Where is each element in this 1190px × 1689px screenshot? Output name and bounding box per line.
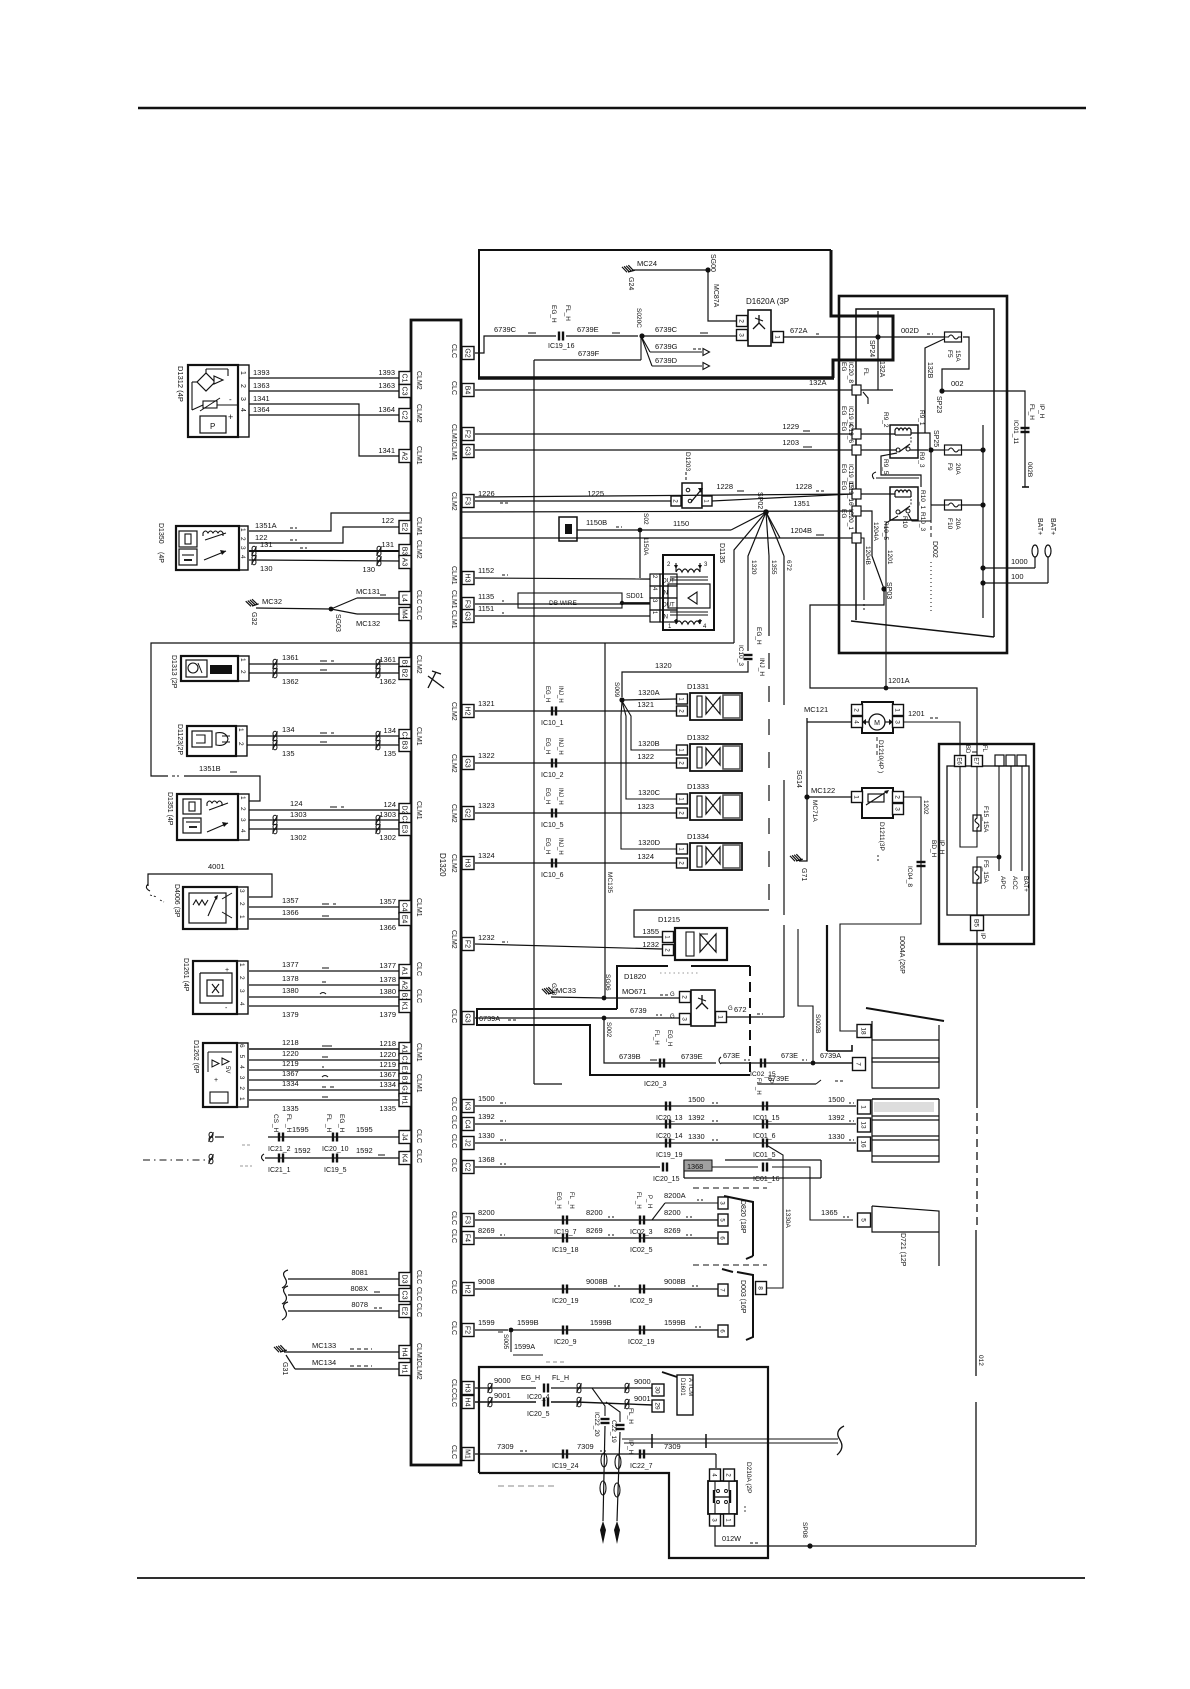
wire 135 [247, 744, 399, 746]
svg-text:8078: 8078 [351, 1300, 368, 1309]
svg-text:1366: 1366 [379, 923, 396, 932]
svg-text:MC131: MC131 [356, 587, 380, 596]
svg-text:6: 6 [238, 1044, 245, 1048]
svg-text:CLC: CLC [450, 344, 457, 358]
svg-text:1151: 1151 [478, 604, 494, 613]
svg-text:CLC: CLC [415, 1270, 422, 1284]
svg-text:124: 124 [290, 799, 303, 808]
wire 1592 [262, 1154, 265, 1161]
D1350 internal switch [204, 551, 226, 560]
svg-text:FL_H: FL_H [552, 1375, 569, 1382]
component D210A [708, 1481, 737, 1514]
junction after F9 [980, 447, 985, 452]
SP24 to 132A [877, 311, 879, 390]
svg-text:EG: EG [840, 422, 847, 431]
wire 1323 [475, 812, 676, 814]
svg-text:EG_H: EG_H [521, 1375, 540, 1382]
svg-text:1377: 1377 [379, 961, 396, 970]
svg-text:132A: 132A [878, 361, 885, 378]
wire SG00 to D1620A pin2 [708, 270, 737, 321]
svg-text:CLM2: CLM2 [415, 655, 422, 674]
svg-text:BD_H: BD_H [930, 840, 937, 858]
wire 673E [719, 1057, 721, 1064]
wire 1357 [249, 906, 399, 908]
svg-text:F3: F3 [463, 600, 470, 608]
svg-text:D210A (2P: D210A (2P [745, 1462, 752, 1493]
svg-text:1324: 1324 [637, 852, 654, 861]
svg-text:1201: 1201 [886, 550, 893, 565]
svg-text:1367: 1367 [379, 1070, 396, 1079]
svg-text:H1: H1 [400, 1365, 407, 1374]
relay R9 [890, 425, 918, 458]
svg-text:MC121: MC121 [804, 705, 828, 714]
svg-text:D4006 (3P: D4006 (3P [173, 884, 180, 918]
svg-text:D1332: D1332 [687, 733, 709, 742]
svg-text:CLM2: CLM2 [415, 540, 422, 559]
svg-text:1321: 1321 [478, 699, 495, 708]
wire 1201 from D1210 [904, 722, 960, 766]
svg-text:2: 2 [237, 742, 244, 746]
wire 8200 [475, 1219, 718, 1221]
svg-text:1: 1 [859, 1105, 866, 1109]
svg-text:D3: D3 [400, 1275, 407, 1284]
wire 8078 [282, 1302, 288, 1320]
wire 100 [980, 580, 985, 585]
wire 131 [249, 550, 399, 552]
D1312 internal P box [200, 416, 226, 433]
relay R9 coil output to SP25 [911, 433, 930, 448]
svg-text:D1313 (2P: D1313 (2P [170, 655, 177, 689]
svg-text:1355: 1355 [770, 560, 777, 575]
svg-text:L4: L4 [400, 594, 407, 602]
wire 672 vertical [766, 512, 784, 556]
svg-text:4001: 4001 [208, 862, 225, 871]
svg-text:1361: 1361 [282, 653, 299, 662]
svg-text:1228: 1228 [795, 482, 812, 491]
svg-text:2: 2 [238, 902, 245, 906]
svg-text:MC71A: MC71A [811, 800, 818, 822]
svg-text:7: 7 [854, 1062, 861, 1066]
wire 6739E [566, 335, 638, 337]
wire 808X [282, 1286, 288, 1304]
svg-text:(4P: (4P [157, 552, 164, 563]
svg-text:C2: C2 [400, 411, 407, 420]
svg-text:002B: 002B [1026, 462, 1033, 477]
svg-text:D721 (12P: D721 (12P [899, 1233, 906, 1267]
svg-text:1322: 1322 [637, 752, 654, 761]
svg-text:G3: G3 [463, 611, 470, 620]
svg-text:CLM1: CLM1 [450, 442, 457, 461]
svg-text:+: + [228, 412, 233, 422]
resistor 1150B [559, 517, 577, 541]
ground G71 [790, 853, 803, 862]
ground MC33 [542, 986, 555, 995]
wire 1203 [475, 449, 856, 451]
svg-text:1361: 1361 [379, 655, 396, 664]
svg-text:6739A: 6739A [820, 1051, 841, 1060]
wire 6739A from G3 [475, 1017, 679, 1019]
fuse F9 20A [931, 449, 945, 451]
D210A internal link [714, 1481, 716, 1491]
wire 1228 into relay R10 [475, 494, 856, 497]
svg-text:1592: 1592 [294, 1146, 311, 1155]
svg-text:CLM1: CLM1 [415, 801, 422, 820]
svg-text:9008B: 9008B [664, 1277, 686, 1286]
wire 1599B [511, 1329, 718, 1331]
svg-text:1320B: 1320B [638, 739, 660, 748]
svg-text:1341: 1341 [378, 446, 395, 455]
svg-text:1334: 1334 [379, 1080, 396, 1089]
svg-text:M1: M1 [463, 1449, 470, 1459]
svg-text:D1333: D1333 [687, 782, 709, 791]
svg-text:6739C: 6739C [494, 325, 517, 334]
svg-text:CLM1: CLM1 [450, 610, 457, 629]
svg-text:SP23: SP23 [935, 396, 942, 413]
svg-text:3: 3 [238, 889, 245, 893]
svg-text:9000: 9000 [494, 1376, 511, 1385]
svg-text:3: 3 [239, 818, 246, 822]
svg-text:1335: 1335 [379, 1104, 396, 1113]
op-amp driver MO671 [691, 990, 715, 1026]
svg-text:1378: 1378 [282, 974, 299, 983]
wire 1599 [475, 1329, 508, 1331]
svg-text:R10_3: R10_3 [919, 512, 926, 532]
svg-text:R9_5: R9_5 [882, 459, 889, 475]
driver box D1820 [617, 966, 668, 1009]
wire 6739E lower [758, 1083, 816, 1085]
passenger fuse box outer [939, 744, 1034, 944]
wire 7309 [475, 1453, 716, 1455]
svg-text:MO671: MO671 [622, 987, 647, 996]
top enclosure bottom edge thick [478, 376, 834, 380]
svg-text:1150A: 1150A [642, 537, 649, 556]
wire 1321 [475, 710, 676, 712]
svg-text:SP25: SP25 [932, 430, 939, 447]
frame around 1368 run [683, 1160, 685, 1178]
wire 132B [925, 339, 944, 433]
wire 1377 [249, 970, 399, 972]
svg-text:MC134: MC134 [312, 1358, 336, 1367]
svg-text:1228: 1228 [716, 482, 733, 491]
svg-text:CLC: CLC [415, 590, 422, 604]
svg-text:1351: 1351 [793, 499, 810, 508]
wire 1362 [249, 672, 399, 674]
svg-text:INJ_H: INJ_H [557, 738, 563, 755]
svg-text:CLM2: CLM2 [450, 754, 457, 773]
D1351 internal switch [207, 823, 228, 832]
wire 672A [783, 336, 839, 338]
svg-text:CLC: CLC [415, 1129, 422, 1143]
svg-text:DB WIRE: DB WIRE [549, 600, 577, 607]
svg-text:1362: 1362 [282, 677, 299, 686]
wire MO671 [604, 997, 679, 999]
connector IC20_8 on 132A [852, 385, 861, 395]
svg-text:D820 (18P: D820 (18P [739, 1200, 746, 1234]
svg-text:CLM1: CLM1 [415, 517, 422, 536]
pin 29 [652, 1400, 664, 1412]
svg-text:H3: H3 [463, 859, 470, 868]
svg-text:A TCM: A TCM [687, 1378, 693, 1396]
wire MC135 vertical [604, 643, 606, 998]
svg-text:EG_H: EG_H [544, 738, 550, 754]
svg-text:FL_H: FL_H [564, 305, 571, 321]
battery terminal BAT+ 2 [1045, 545, 1051, 557]
svg-text:130: 130 [260, 564, 273, 573]
svg-text:F3: F3 [463, 497, 470, 505]
svg-text:IC02_5: IC02_5 [630, 1247, 653, 1254]
svg-text:CLM1: CLM1 [450, 566, 457, 585]
svg-text:R10: R10 [901, 516, 908, 528]
svg-text:B4: B4 [463, 386, 470, 395]
wire 1500 [475, 1105, 856, 1107]
svg-text:1: 1 [773, 335, 780, 339]
svg-text:G: G [728, 1006, 733, 1012]
svg-text:1379: 1379 [282, 1010, 299, 1019]
svg-text:1: 1 [239, 371, 246, 375]
svg-text:D1350: D1350 [157, 523, 164, 544]
svg-text:H3: H3 [463, 1384, 470, 1393]
svg-text:CLC: CLC [415, 962, 422, 976]
svg-text:D1820: D1820 [624, 972, 646, 981]
svg-text:MC122: MC122 [811, 786, 835, 795]
wire 1324 [475, 862, 676, 864]
svg-text:FL_H: FL_H [627, 1408, 634, 1424]
svg-text:1362: 1362 [379, 677, 396, 686]
splice SP02 [763, 509, 769, 515]
svg-text:IC04_8: IC04_8 [906, 866, 913, 887]
svg-text:CLC: CLC [450, 1211, 457, 1225]
svg-text:SP24: SP24 [868, 340, 875, 357]
svg-text:F2: F2 [463, 430, 470, 438]
relay R10 switch output [908, 505, 931, 521]
ground MC32 [246, 598, 259, 608]
svg-text:CLC: CLC [450, 1009, 457, 1023]
svg-text:IC22_7: IC22_7 [630, 1463, 653, 1470]
svg-text:D004A (26P: D004A (26P [898, 936, 905, 974]
svg-text:E4: E4 [400, 915, 407, 924]
svg-text:F2: F2 [463, 1326, 470, 1334]
wire 132A [475, 389, 856, 391]
svg-text:IC10_6: IC10_6 [541, 872, 564, 879]
svg-text:BAT+: BAT+ [1049, 518, 1056, 535]
wire 1201 E6 branch [960, 766, 977, 847]
svg-text:1000: 1000 [1011, 557, 1028, 566]
svg-text:1219: 1219 [282, 1059, 299, 1068]
svg-text:135: 135 [383, 749, 396, 758]
continuation curl wire [872, 472, 876, 479]
fuse F5 15A ip [973, 867, 981, 883]
connector IC01_11 [1021, 427, 1030, 429]
wire 6739A to D004A pin7 [813, 1062, 852, 1064]
wire 1150A into pin2 [640, 578, 650, 580]
wire 1367 [249, 1079, 399, 1081]
svg-text:F10: F10 [946, 518, 953, 530]
wire 1152 link from vertical [639, 576, 641, 578]
svg-text:D1601: D1601 [679, 1378, 685, 1396]
svg-text:E6: E6 [955, 757, 961, 765]
svg-text:15A: 15A [954, 350, 961, 362]
terminal sockets 1595 [209, 1132, 213, 1137]
svg-text:9000: 9000 [634, 1377, 651, 1386]
svg-text:D1215: D1215 [658, 915, 680, 924]
svg-text:IC19_18: IC19_18 [552, 1247, 579, 1254]
svg-text:CLM1: CLM1 [450, 590, 457, 609]
bottom enclosure box [479, 1367, 768, 1558]
svg-text:1201A: 1201A [888, 676, 910, 685]
svg-text:IC19_19: IC19_19 [656, 1152, 683, 1159]
svg-text:5V: 5V [224, 1066, 230, 1073]
svg-text:134: 134 [383, 726, 396, 735]
wire 1201 from relay R10 [886, 516, 898, 688]
svg-text:CLM1: CLM1 [415, 1074, 422, 1093]
svg-text:IC19_16: IC19_16 [548, 343, 575, 350]
wire 1322 [475, 762, 676, 764]
svg-text:18: 18 [859, 1027, 866, 1035]
svg-text:2: 2 [680, 995, 687, 999]
svg-text:6739: 6739 [630, 1006, 647, 1015]
svg-text:20A: 20A [954, 518, 961, 530]
svg-text:C3: C3 [400, 1291, 407, 1300]
svg-text:4: 4 [239, 829, 246, 833]
svg-text:D1334: D1334 [687, 832, 709, 841]
wire 1150 [577, 529, 731, 531]
svg-text:MC132: MC132 [356, 619, 380, 628]
svg-text:1220: 1220 [282, 1049, 299, 1058]
fuse F5 15A [945, 332, 962, 342]
svg-text:_H: _H [635, 1200, 641, 1209]
svg-text:IC19_7: IC19_7 [554, 1229, 577, 1236]
component D1262 connector [203, 1043, 237, 1107]
svg-text:1500: 1500 [688, 1095, 705, 1104]
wire 1355 to D1215 [634, 910, 769, 937]
D1312 internal bridge symbol [197, 373, 215, 391]
svg-text:E2: E2 [400, 1307, 407, 1316]
svg-text:A3: A3 [400, 558, 407, 567]
svg-text:8081: 8081 [351, 1268, 368, 1277]
svg-text:1232: 1232 [642, 940, 659, 949]
splice S002B [811, 1061, 816, 1066]
svg-text:6739E: 6739E [681, 1052, 703, 1061]
svg-text:1368: 1368 [687, 1162, 703, 1171]
component D1211 [862, 788, 893, 818]
svg-text:CLM2: CLM2 [450, 930, 457, 949]
svg-text:EG: EG [840, 509, 847, 518]
ACC rail [1010, 766, 1012, 871]
svg-text:APC: APC [999, 876, 1006, 890]
svg-text:EG: EG [840, 481, 847, 490]
motor D1210 [862, 702, 893, 733]
svg-text:CLC: CLC [450, 381, 457, 395]
wire 1151 [475, 615, 650, 617]
svg-text:13: 13 [859, 1121, 866, 1129]
svg-text:SG00: SG00 [709, 254, 716, 272]
svg-text:IC01_11: IC01_11 [1012, 420, 1019, 444]
svg-text:1357: 1357 [379, 897, 396, 906]
wire 1351A [249, 513, 411, 531]
svg-text:B3: B3 [400, 547, 407, 556]
svg-text:F3: F3 [463, 1216, 470, 1224]
svg-text:673E: 673E [723, 1051, 740, 1060]
component D1312 crank sensor [188, 365, 238, 437]
svg-text:1380: 1380 [282, 986, 299, 995]
svg-text:124: 124 [383, 800, 396, 809]
bottom border rule [137, 1577, 1085, 1579]
svg-text:3: 3 [239, 397, 246, 401]
svg-text:1: 1 [239, 528, 246, 532]
component D1350 idle valve [176, 526, 239, 570]
svg-text:EG_H: EG_H [544, 788, 550, 804]
shielded cable DB WIRE [518, 593, 622, 608]
svg-text:IC20_15: IC20_15 [653, 1176, 680, 1183]
svg-text:4: 4 [238, 1065, 245, 1069]
svg-text:1232: 1232 [478, 933, 495, 942]
svg-text:30: 30 [653, 1386, 660, 1394]
svg-text:SP08: SP08 [801, 1522, 808, 1538]
D1350 internal battery [179, 549, 197, 565]
svg-text:131: 131 [381, 540, 394, 549]
svg-text:H4: H4 [400, 1348, 407, 1357]
svg-text:6739B: 6739B [619, 1052, 641, 1061]
svg-text:C22_19: C22_19 [610, 1420, 617, 1443]
svg-text:R9_1: R9_1 [918, 410, 925, 426]
svg-text:IP: IP [979, 933, 986, 939]
svg-text:132B: 132B [926, 362, 933, 379]
svg-text:1599A: 1599A [514, 1342, 535, 1351]
svg-text:3: 3 [893, 807, 900, 811]
svg-text:INJ_H: INJ_H [758, 658, 765, 676]
svg-text:IC20_9: IC20_9 [554, 1339, 577, 1346]
svg-text:1334: 1334 [282, 1079, 299, 1088]
svg-text:1341: 1341 [253, 394, 270, 403]
svg-text:A1: A1 [400, 967, 407, 976]
svg-text:J2: J2 [463, 1139, 470, 1147]
svg-text:1500: 1500 [478, 1094, 495, 1103]
wire 1204B [460, 537, 856, 539]
svg-text:2: 2 [737, 319, 744, 323]
D1351 internal battery [183, 818, 201, 833]
svg-text:G24: G24 [627, 277, 634, 290]
svg-text:1219: 1219 [379, 1060, 396, 1069]
svg-text:OUT: OUT [662, 603, 675, 609]
wire 1366 [249, 918, 399, 920]
wire 6739B [604, 1018, 716, 1063]
pin 30 [652, 1384, 664, 1396]
svg-text:IC02_9: IC02_9 [630, 1298, 653, 1305]
svg-text:2: 2 [239, 807, 246, 811]
svg-text:_H: _H [755, 1086, 761, 1095]
svg-text:6739E: 6739E [577, 325, 599, 334]
svg-text:6739C: 6739C [655, 325, 678, 334]
svg-text:2: 2 [238, 1086, 245, 1090]
splice SG03 wires MC131 MC132 [256, 608, 330, 609]
svg-text:1355: 1355 [642, 927, 659, 936]
svg-text:EG_H: EG_H [544, 686, 550, 702]
svg-text:1335: 1335 [282, 1104, 299, 1113]
svg-text:CLM1: CLM1 [415, 727, 422, 746]
svg-text:D1203: D1203 [684, 452, 691, 472]
svg-text:1365: 1365 [821, 1208, 838, 1217]
svg-text:G2: G2 [463, 348, 470, 357]
svg-text:CLC: CLC [415, 989, 422, 1003]
relay R10 [890, 487, 918, 520]
wire 002D [839, 336, 944, 338]
svg-text:1302: 1302 [379, 833, 396, 842]
wire 1330A [766, 1146, 783, 1288]
wire R9_5 path [881, 453, 921, 487]
svg-text:1218: 1218 [379, 1039, 396, 1048]
svg-text:FL: FL [635, 1192, 641, 1200]
wire 1351 [460, 511, 856, 512]
